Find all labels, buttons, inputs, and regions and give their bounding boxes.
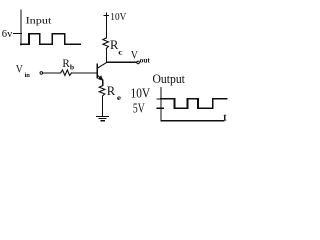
- resistor RE zigzag: [99, 86, 105, 96]
- svg-text:in: in: [25, 72, 31, 79]
- svg-text:5V: 5V: [133, 100, 145, 115]
- output waveform: [161, 99, 227, 109]
- svg-text:b: b: [70, 62, 74, 71]
- Vout open terminal circle: [137, 61, 140, 64]
- svg-text:10V: 10V: [110, 12, 127, 23]
- output 10V tick: [157, 98, 163, 100]
- ground symbol: [97, 116, 109, 120]
- output horizontal axis: [161, 120, 224, 122]
- output 5V tick: [157, 107, 163, 109]
- transistor Q1 emitter lead: [98, 75, 103, 80]
- svg-text:6v: 6v: [2, 29, 13, 40]
- wire emitter down to RE: [102, 80, 104, 85]
- node +10V power wire: [105, 18, 107, 38]
- resistor RC zigzag: [103, 38, 109, 49]
- wire RC to collector junction: [105, 48, 107, 62]
- input 6v tick: [14, 33, 22, 35]
- svg-text:R: R: [62, 57, 70, 70]
- Vin open terminal circle: [40, 72, 43, 75]
- wire RB to base: [72, 72, 97, 74]
- input waveform: [21, 34, 80, 45]
- transistor Q1 base bar: [96, 64, 98, 77]
- +10V plus sign: [104, 13, 108, 18]
- wire RE to ground: [102, 96, 104, 116]
- wire Vin terminal to RB: [43, 72, 61, 74]
- svg-text:Input: Input: [26, 15, 52, 26]
- transistor Q1 emitter arrowhead: [98, 76, 102, 80]
- output graph vertical axis: [160, 88, 162, 121]
- svg-text:V: V: [131, 49, 139, 62]
- svg-text:R: R: [107, 84, 116, 98]
- svg-text:e: e: [117, 94, 121, 102]
- svg-text:out: out: [140, 56, 151, 64]
- svg-text:V: V: [16, 63, 24, 76]
- wire collector junction to Vout terminal: [106, 61, 136, 63]
- svg-text:Output: Output: [153, 72, 186, 86]
- resistor RB zigzag: [61, 70, 72, 76]
- transistor Q1 collector lead: [98, 63, 107, 68]
- input graph vertical axis: [20, 10, 22, 45]
- svg-text:10V: 10V: [131, 86, 151, 101]
